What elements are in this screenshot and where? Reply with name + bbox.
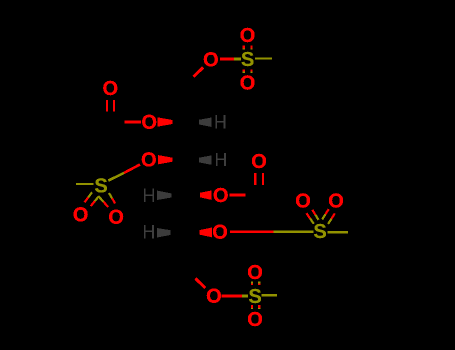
node O ester (C6) [207, 289, 221, 303]
wire S=O down-left double bond [88, 192, 92, 197]
node H on C4 [144, 189, 154, 202]
wire O-S bond [222, 295, 242, 298]
wire S=O up-left double bond [310, 219, 314, 224]
node H on C3 [216, 153, 226, 166]
acetate group 1 (left, on C2) [103, 81, 156, 129]
node O (S6 bottom) [248, 312, 262, 326]
wire O-S bond (long) [230, 231, 274, 234]
node O (S6 top) [248, 265, 262, 279]
node O carbonyl [252, 154, 266, 168]
wire S-CH3 bond [262, 294, 278, 296]
node O (S1 top) [241, 28, 255, 42]
node O ester (C2) [142, 115, 156, 129]
mesylate group 3 (right, on C5) [213, 193, 348, 238]
node O (S1 bottom) [241, 75, 255, 89]
wire O-C bond (red half) [230, 194, 246, 197]
mesylate group 2 (left, on C3) [74, 152, 156, 224]
wire S-CH3 bond [328, 231, 349, 233]
node H on C5 [144, 225, 154, 238]
wire S=O down-right double bond [109, 193, 112, 198]
node S5 [314, 224, 326, 238]
node C2 wedge to H (gray half) [199, 118, 212, 127]
wire C6-O bond (red half) [196, 279, 206, 289]
node O (S5 up-right) [329, 193, 343, 207]
node H on C2 [216, 115, 226, 128]
node C4 wedge to O (red half) [200, 190, 212, 200]
node O (S3 down-right) [109, 210, 123, 224]
wire S=O up-right double bond [328, 219, 331, 224]
wire S=O top double bond [243, 45, 245, 48]
node O (S3 down-left) [74, 207, 88, 221]
node O ester (C5) [213, 225, 227, 239]
wire S=O bottom double bond [251, 305, 253, 308]
node C3 wedge to O (red half) [158, 155, 173, 164]
node C3 wedge to H (gray half) [199, 155, 212, 164]
wire O-S bond [124, 165, 140, 173]
node S1 [242, 52, 254, 66]
wire S-CH3 bond [255, 57, 272, 59]
node S3 [95, 178, 107, 192]
acetate group 2 (right, on C4) [214, 154, 266, 202]
wire C1-O bond (red half) [194, 67, 204, 76]
wire S-CH3 bond [76, 183, 94, 185]
node O (S5 up-left) [296, 193, 310, 207]
node C5 wedge to O (red half) [199, 228, 212, 238]
wire C=O double bond (red halves) [254, 173, 256, 185]
node O carbonyl [103, 81, 117, 95]
mesylate group 4 (bottom, on C6) [207, 265, 277, 326]
wire O-S bond [220, 58, 234, 61]
mesylate group 1 (top, on C1) [194, 28, 273, 90]
wire S=O top double bond [251, 281, 253, 283]
wire C=O double bond (red halves) [106, 100, 108, 111]
node C5 wedge to H (gray half) [157, 228, 171, 238]
node O ester (C1) [204, 52, 218, 66]
node C4 wedge to H (gray half) [157, 191, 172, 201]
node O ester (C3) [142, 152, 156, 166]
wire S=O bottom double bond [243, 70, 245, 72]
node C2 wedge to O (red half) [157, 117, 172, 126]
node S6 [249, 289, 261, 303]
node O ester (C4) [214, 188, 228, 202]
wire C-O ester bond (red half) [125, 121, 141, 124]
